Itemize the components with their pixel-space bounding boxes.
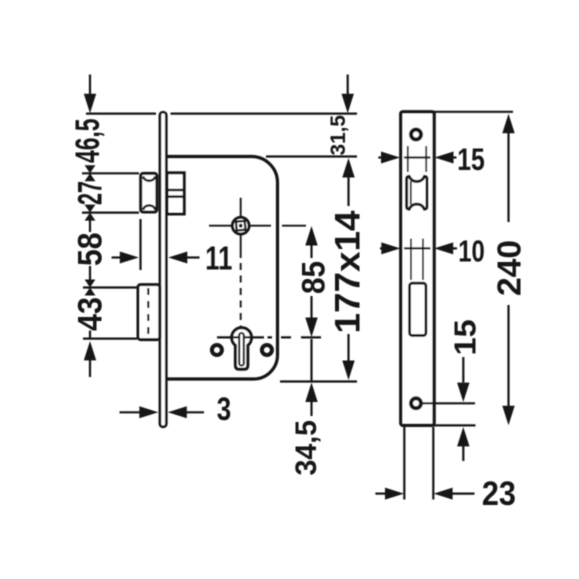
junction marker at latch bottom <box>85 205 96 221</box>
dimension 23 <box>375 475 516 513</box>
extension line deadbolt top <box>83 286 137 288</box>
dimension 10 <box>380 233 485 268</box>
latch cutout extension stubs <box>408 146 426 172</box>
svg-text:11: 11 <box>205 240 232 277</box>
dimension 11: extension line from latch face <box>139 219 141 270</box>
dimension chain column top arrow (down) <box>84 75 96 114</box>
svg-text:85: 85 <box>296 261 332 294</box>
dimension 11 left arrow <box>112 252 139 264</box>
latch bolt head <box>141 173 157 212</box>
dimension text 46,5 <box>69 119 107 164</box>
svg-text:177x14: 177x14 <box>329 210 368 334</box>
dimension 3 (faceplate thickness) <box>120 391 232 427</box>
follower hub circle <box>232 217 249 234</box>
dimension 15 bottom <box>447 319 482 461</box>
svg-text:3: 3 <box>217 391 231 427</box>
svg-text:15: 15 <box>447 319 482 355</box>
svg-text:23: 23 <box>482 475 516 513</box>
extension line deadbolt bottom <box>83 338 137 340</box>
latch tail inside case <box>167 173 184 214</box>
deadbolt <box>138 285 160 340</box>
cylinder keyway slot <box>239 333 244 366</box>
svg-text:43: 43 <box>72 297 110 331</box>
follower square spindle hole <box>236 221 246 231</box>
dimension 31,5 <box>327 75 354 156</box>
screw hole top <box>411 130 421 140</box>
svg-text:31,5: 31,5 <box>327 115 350 156</box>
screw hole left <box>212 345 222 355</box>
extension line latch top <box>82 172 139 174</box>
extension line case top <box>266 155 357 157</box>
profile cylinder keyhole body <box>232 328 252 370</box>
junction marker at latch top <box>85 165 96 181</box>
follower crosshair vertical <box>240 198 242 327</box>
dimension text 58 <box>72 233 110 267</box>
deadbolt cutout <box>410 283 426 335</box>
dimension text 11 <box>205 240 232 277</box>
extension line screw hole <box>422 402 476 404</box>
cylinder centerline dash-dot <box>217 336 321 338</box>
svg-text:240: 240 <box>490 240 527 296</box>
extension lines 23 <box>404 427 433 500</box>
extension line strip bottom <box>434 424 476 426</box>
dimension 240 <box>490 114 527 425</box>
dimension 15 top <box>378 141 485 177</box>
dimension 177x14 <box>329 158 368 380</box>
dimension 85 <box>296 226 332 337</box>
svg-text:27: 27 <box>72 181 110 205</box>
svg-text:15: 15 <box>457 141 485 177</box>
deadbolt cutout extension stubs <box>411 239 423 281</box>
lock case outline <box>168 157 278 380</box>
junction marker at deadbolt top <box>85 280 96 296</box>
follower crosshair horizontal <box>209 225 306 227</box>
svg-text:10: 10 <box>458 233 485 268</box>
extension line case bottom right <box>280 380 357 382</box>
svg-text:46,5: 46,5 <box>69 119 107 164</box>
extension line faceplate top y=113.6 <box>86 112 357 114</box>
extension line strip top <box>434 111 513 113</box>
faceplate side view <box>160 112 166 427</box>
dimension 11 right arrow <box>168 252 199 264</box>
dimension chain bottom arrow (up) <box>84 341 96 377</box>
dimension line segment 43 lower <box>89 331 91 339</box>
latch front view <box>407 176 427 209</box>
extension line latch bottom <box>82 212 139 214</box>
screw hole bottom <box>411 398 421 408</box>
dimension 34,5 <box>290 339 323 476</box>
svg-text:34,5: 34,5 <box>290 420 323 476</box>
dimension line segment 58 lower <box>89 266 91 281</box>
dimension text 43 <box>72 297 110 331</box>
dimension line segment 58 upper <box>89 220 91 233</box>
dimension text 27 <box>72 181 110 205</box>
screw hole right <box>262 345 272 355</box>
strip faceplate front view <box>401 112 434 426</box>
svg-text:58: 58 <box>72 233 110 267</box>
